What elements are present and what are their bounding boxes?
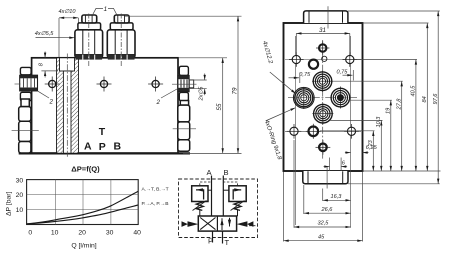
svg-text:P.→A, P.→B: P.→A, P.→B (142, 201, 169, 207)
svg-text:40,5: 40,5 (411, 85, 417, 97)
svg-text:30: 30 (106, 230, 114, 237)
svg-text:2: 2 (156, 99, 161, 106)
directional valve right cell arrows (221, 218, 223, 230)
relief valve left: connection to A (208, 189, 212, 191)
port T (top) concentric (312, 71, 333, 92)
orifice hole bottom (bold) (306, 124, 321, 139)
y axis labels (16, 177, 24, 214)
svg-text:B: B (224, 168, 229, 177)
svg-text:2x∅5: 2x∅5 (198, 86, 204, 102)
svg-text:0: 0 (28, 230, 32, 237)
svg-text:84: 84 (422, 96, 428, 102)
cartridge valve 1 (left) (75, 15, 103, 58)
svg-text:4x∅5,5: 4x∅5,5 (35, 31, 54, 37)
relief valve left: pilot dashed line (200, 182, 212, 186)
svg-text:55: 55 (216, 103, 223, 110)
bottom extension line to dims (183, 152, 242, 154)
extension line from cartridge top for dim 79 (125, 15, 242, 17)
svg-text:ΔP [bar]: ΔP [bar] (5, 191, 12, 216)
curve P-A P-B (27, 205, 139, 224)
directional valve left cell X (200, 218, 215, 230)
orifice hole top (bold) (309, 60, 318, 69)
dimension 10,3 (380, 120, 382, 171)
block top extension for 84 (363, 22, 429, 24)
relief valve left: drain line down (199, 209, 201, 216)
valve body block outline (32, 58, 178, 153)
vertical centerline of ports (322, 40, 324, 160)
relief valve right: internal arrow (233, 190, 241, 200)
leader 2 (left plug) (38, 91, 50, 98)
svg-text:0,75: 0,75 (337, 70, 349, 76)
port A (left) concentric with O-ring (293, 87, 314, 108)
left mounting plug (big, bottom) (19, 99, 31, 153)
svg-text:26,6: 26,6 (321, 207, 334, 213)
bolt hole (diam 5.5) white cutout (63, 71, 71, 153)
relief valve right: drain line down (237, 209, 239, 216)
svg-text:0,75: 0,75 (299, 72, 311, 78)
hole pattern grid lines (285, 36, 361, 228)
port hole left (with center cross) (45, 77, 60, 92)
svg-text:Q [l/min]: Q [l/min] (71, 242, 96, 249)
svg-text:16,3: 16,3 (331, 194, 343, 200)
svg-text:6,25: 6,25 (366, 145, 378, 151)
block outline (284, 23, 363, 171)
bottom tab centerline (326, 167, 328, 189)
port hole middle (97, 77, 112, 92)
drain dashed to box edge (249, 225, 258, 227)
plot frame (27, 180, 139, 225)
top tab (304, 11, 348, 23)
curve A-T B-T (27, 191, 139, 224)
svg-text:T: T (99, 126, 106, 138)
svg-text:27,8: 27,8 (396, 98, 402, 111)
x axis labels (28, 230, 141, 237)
svg-text:10: 10 (51, 230, 59, 237)
svg-text:31: 31 (319, 27, 326, 34)
bore centerline (66, 54, 68, 158)
dashed enclosure box (179, 179, 258, 238)
svg-text:10,3: 10,3 (376, 116, 382, 128)
cartridge valve 2 (right) (107, 15, 135, 58)
line A (211, 176, 213, 217)
cartridge 2 threaded band (108, 55, 135, 60)
dimension 84 (426, 23, 428, 171)
cartridge 2 centerline (120, 14, 122, 67)
svg-text:45: 45 (318, 234, 325, 240)
dimension 40,5 (415, 60, 417, 172)
bottom tab (303, 171, 348, 184)
small pilot hole top (bold) (316, 41, 329, 54)
svg-text:30: 30 (16, 177, 24, 184)
cartridge 1 threaded band (75, 55, 102, 60)
svg-text:10: 10 (16, 207, 24, 214)
mounting hole bottom-left (287, 124, 302, 139)
dimension 27,8 (401, 81, 403, 171)
sectioned bolt bore: hatched column (57, 58, 79, 153)
directional valve body (198, 216, 236, 231)
counterbore hole (diam 10) white cutout (60, 58, 75, 71)
bottom edge extension to right dims (363, 170, 441, 172)
svg-text:20: 20 (16, 192, 24, 199)
left actuator arrows (188, 221, 199, 227)
svg-text:2: 2 (49, 99, 54, 106)
svg-text:A.→T, B.→T: A.→T, B.→T (142, 187, 169, 193)
svg-text:T: T (225, 238, 230, 247)
relief valve left: square (192, 186, 208, 202)
relief valve right: spring (234, 202, 241, 211)
svg-text:79: 79 (232, 87, 239, 94)
svg-text:97,6: 97,6 (433, 93, 439, 105)
port P (bottom) concentric (312, 103, 333, 124)
svg-text:4x∅10: 4x∅10 (59, 9, 77, 15)
svg-text:P: P (208, 237, 213, 246)
svg-text:32,5: 32,5 (318, 221, 330, 227)
mounting hole top-right (343, 52, 358, 67)
line B (222, 176, 224, 217)
svg-text:19: 19 (386, 108, 392, 114)
dimension 79 (237, 16, 239, 153)
top tab centerline (327, 6, 329, 28)
mounting hole bottom-right (344, 124, 359, 139)
cartridge 1 centerline (88, 14, 90, 67)
svg-text:B: B (114, 141, 122, 153)
right actuator arrows (237, 221, 248, 227)
block bottom edge thick baseline (19, 152, 190, 154)
horizontal centerline of ports (288, 97, 358, 99)
dimension 8 (counterbore depth) (41, 70, 58, 72)
svg-text:A: A (84, 141, 92, 153)
port hole right (148, 77, 163, 92)
svg-text:20: 20 (78, 230, 86, 237)
relief valve left: spring (196, 202, 203, 211)
svg-text:1: 1 (104, 6, 107, 13)
dimension 19 (390, 100, 392, 171)
relief valve right: pilot dashed line (223, 182, 237, 186)
relief valve right: square (229, 186, 246, 202)
right side port plug (small, top) (178, 66, 194, 101)
dimension 97,6 (437, 11, 439, 184)
svg-text:P: P (99, 141, 106, 153)
leader 2 (right plug) (161, 89, 178, 99)
line T (222, 231, 224, 243)
left side port plug (small, top) (20, 67, 38, 101)
dimension 2x diam5 (189, 79, 207, 81)
dimension 23 (372, 131, 374, 171)
mounting hole top-left (289, 52, 304, 67)
svg-text:40: 40 (133, 230, 141, 237)
top edge extension line to dims 55 (178, 57, 227, 59)
relief valve right: connection to B (223, 189, 229, 191)
small circle beside top orifice (322, 56, 327, 61)
directional valve divider (216, 216, 218, 231)
svg-text:ΔP=f(Q): ΔP=f(Q) (71, 164, 100, 173)
port B (right) concentric with plug (331, 88, 350, 107)
relief valve left: internal arrow (196, 190, 204, 200)
right mounting plug (big, bottom) (178, 101, 190, 152)
small pilot hole bottom (bold) (316, 140, 331, 155)
dimension 55 (222, 58, 224, 154)
feature extension lines (320, 130, 375, 132)
tab bottom extension for 97,6 (348, 183, 440, 185)
line P (212, 231, 214, 242)
tab top extension for 97,6 (348, 10, 440, 12)
grid lines (27, 180, 139, 225)
